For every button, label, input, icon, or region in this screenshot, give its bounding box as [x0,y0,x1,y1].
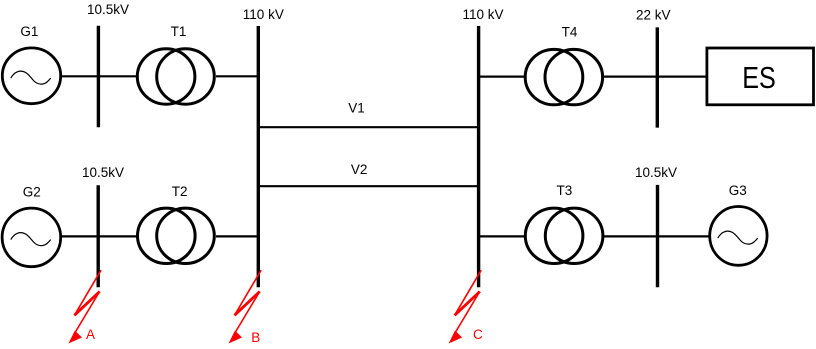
svg-text:T2: T2 [172,184,188,199]
wire 110kV right busbar to T3 [479,235,525,237]
svg-text:110 kV: 110 kV [243,7,284,22]
fault A arrow [68,270,101,343]
label V2 [351,162,368,177]
wire 10.5kV busbar to T2 [98,235,137,237]
transformer T4 [525,49,602,104]
svg-text:G2: G2 [23,185,41,200]
label 10.5kV (G3 bus) [635,165,677,180]
svg-text:C: C [473,327,483,342]
svg-text:T3: T3 [557,183,573,198]
label T1 [171,24,187,39]
svg-text:V1: V1 [348,101,365,116]
line V1 [257,126,480,128]
fault C arrow [449,270,482,343]
label V1 [348,101,365,116]
label T3 [557,183,573,198]
svg-text:ES: ES [742,60,776,95]
svg-text:V2: V2 [351,162,368,177]
label T2 [172,184,188,199]
label B [251,330,260,345]
svg-text:10.5kV: 10.5kV [82,165,124,180]
wire G1 to 10.5kV busbar [61,75,98,77]
wire T3 to 10.5kV busbar (G3) [604,235,658,237]
svg-text:T1: T1 [171,24,187,39]
wire 10.5kV busbar to T1 [98,75,137,77]
busbar 10.5kV (G1) [97,26,100,127]
busbar 10.5kV (G3) [656,185,659,287]
generator G2 [2,208,61,267]
generator G1 [2,48,60,104]
label 10.5kV (G1 bus) [87,2,129,17]
label T4 [562,25,578,40]
fault B arrow [229,270,262,343]
busbar 22kV [656,27,659,127]
svg-text:B: B [251,330,260,345]
label 22 kV [636,7,671,22]
label 110 kV right [463,7,504,22]
busbar 110kV left [257,26,260,287]
svg-text:22 kV: 22 kV [636,7,671,22]
svg-text:G1: G1 [20,24,38,39]
transformer T2 [138,208,215,263]
svg-text:G3: G3 [729,183,747,198]
block ES (external system) [707,48,814,105]
busbar 10.5kV (G2) [96,185,99,287]
transformer T3 [525,208,603,263]
wire 22kV busbar to ES block [657,75,706,77]
label G1 [20,24,38,39]
label 110 kV left [243,7,284,22]
label A [86,327,95,342]
label G3 [729,183,747,198]
wire 10.5kV busbar to G3 [658,235,709,237]
busbar 110kV right [477,26,480,287]
wire T1 to 110kV left busbar [216,75,258,77]
svg-text:A: A [86,327,95,342]
svg-text:10.5kV: 10.5kV [87,2,129,17]
label 10.5kV (G2 bus) [82,165,124,180]
svg-text:T4: T4 [562,25,578,40]
label G2 [23,185,41,200]
wire T2 to 110kV left busbar [216,235,258,237]
label C [473,327,483,342]
wire G2 to 10.5kV busbar [61,235,98,237]
wire T4 to 22kV busbar [604,75,657,77]
svg-text:110 kV: 110 kV [463,7,504,22]
transformer T1 [137,49,214,104]
generator G3 [710,207,767,266]
label ES [742,60,776,95]
line V2 [257,185,480,187]
svg-text:10.5kV: 10.5kV [635,165,677,180]
wire 110kV right busbar to T4 [479,75,525,77]
